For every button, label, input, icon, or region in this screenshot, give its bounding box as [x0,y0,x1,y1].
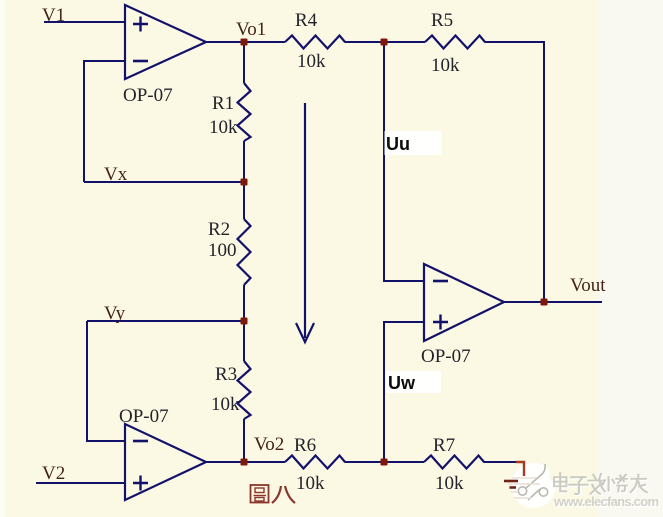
wire U2 output to Vo2 node [206,461,285,463]
svg-text:Vx: Vx [104,164,128,185]
resistor R1 zigzag [238,83,251,141]
op-amp U2 (bottom OP-07) triangle [125,424,206,500]
svg-text:V2: V2 [42,463,65,484]
current direction arrow head [296,323,314,342]
wire R6 to bottom junction [345,461,385,463]
svg-text:Vout: Vout [570,275,606,296]
wire U1 feedback: minus input left, down to Vx row [84,61,125,182]
figure caption 圖 (drawn glyph) [251,485,269,503]
ground symbol bar 1 [504,480,518,483]
svg-text:R6: R6 [294,435,316,456]
watermark text 电子发烧友 (gray strokes) [554,473,647,494]
svg-text:Vo1: Vo1 [236,19,266,40]
wire R3 top lead [243,321,245,361]
svg-text:Uu: Uu [386,134,410,154]
watermark text 电子发烧友 (emboss white underlay) [555,474,648,495]
wire U3 output to Vout [504,301,602,303]
svg-text:www.elecfans.com: www.elecfans.com [553,494,659,509]
wire R1 bottom lead to Vx node [243,141,245,182]
wire Vw rail: U3 plus input left then down to bottom junction [384,322,424,462]
watermark logo traces [518,464,547,500]
svg-text:Vy: Vy [104,303,126,324]
op-amp U3 minus input symbol [433,280,448,283]
op-amp U3 (right OP-07) triangle [424,264,504,341]
wire Vy row horizontal [87,320,244,322]
wire V2 input lead [36,482,125,484]
wire R2 bottom lead to Vy node [243,285,245,321]
node Vw label box [386,371,441,393]
wire U1 output to Vo1 node [206,41,285,43]
svg-text:R5: R5 [431,10,453,31]
svg-text:R2: R2 [208,219,230,240]
watermark logo faint traces [508,478,540,498]
svg-text:R4: R4 [295,10,318,31]
background white sliver left edge [0,0,5,517]
ground symbol bar 2 [510,486,517,489]
figure caption 八 (drawn glyph) [272,486,295,503]
watermark logo notch carve [545,458,552,477]
current direction arrow shaft [304,103,306,338]
svg-text:10k: 10k [297,51,326,72]
svg-text:Vo2: Vo2 [254,434,284,455]
svg-text:V1: V1 [42,5,65,26]
resistor R6 zigzag [285,456,345,469]
svg-text:10k: 10k [435,473,464,494]
op-amp U2 minus input symbol [133,440,148,443]
svg-text:R3: R3 [215,364,237,385]
node Vu label box [385,131,442,155]
resistor R5 zigzag [425,36,485,49]
wire R2 top lead [243,182,245,219]
svg-text:10k: 10k [431,55,460,76]
node junction dot Vo2 [241,459,248,466]
wire Vx row horizontal [84,181,244,183]
watermark logo circle [511,463,556,508]
wire junction to R7 [384,461,424,463]
op-amp U1 (top OP-07) triangle [125,5,206,79]
node junction dot Vo1 [241,39,248,46]
wire Vy down to U2 minus feedback [87,321,125,441]
op-amp U1 minus input symbol [133,60,148,63]
svg-text:Uw: Uw [388,373,416,393]
node junction dot R6-R7 [381,459,388,466]
resistor R7 zigzag [424,456,484,469]
op-amp U1 plus input symbol [133,17,148,32]
svg-text:R7: R7 [433,435,455,456]
wire V1 input lead [44,21,125,23]
svg-text:10k: 10k [211,394,240,415]
node junction dot R4-R5 [381,39,388,46]
background white band right side [598,0,663,517]
wire R3 bottom lead to Vo2 node [243,419,245,462]
wire R1 top lead [243,42,245,83]
wire R5 right to corner and down feedback rail [485,42,545,302]
wire R7 right lead [484,461,518,463]
resistor R4 zigzag [285,36,345,49]
wire Vu rail: from R4/R5 junction down to U3 minus input [384,42,424,281]
resistor R2 zigzag [238,219,251,285]
wire red corner down to ground [516,462,524,476]
svg-text:OP-07: OP-07 [123,85,173,106]
node junction dot Vy [241,318,248,325]
node junction dot Vx [241,179,248,186]
node junction dot output [541,299,548,306]
op-amp U2 plus input symbol [133,476,148,491]
svg-text:R1: R1 [212,93,234,114]
wire R4 to junction [345,41,426,43]
resistor R3 zigzag [238,361,251,419]
svg-text:100: 100 [208,240,237,261]
op-amp U3 plus input symbol [433,315,448,330]
svg-text:OP-07: OP-07 [421,346,471,367]
svg-text:10k: 10k [296,473,325,494]
svg-text:OP-07: OP-07 [119,406,169,427]
svg-text:10k: 10k [209,117,238,138]
